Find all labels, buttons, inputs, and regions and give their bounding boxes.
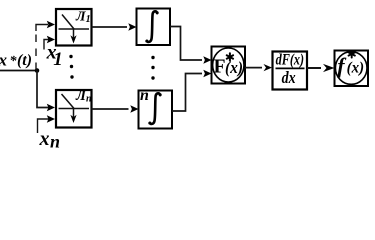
- svg-text:(x): (x): [225, 58, 243, 77]
- svg-text:1: 1: [53, 49, 63, 70]
- svg-text:F: F: [214, 57, 226, 78]
- wire: x*(t) input horizontal: [0, 70, 37, 72]
- wire: dF block to f block: [307, 67, 321, 69]
- wire: junction down to sampler Sn: [37, 71, 49, 108]
- dots: ellipsis between integrators: [151, 56, 154, 59]
- sampler Sn switch symbol: [59, 108, 90, 110]
- svg-text:(x): (x): [347, 60, 365, 77]
- wire: integrator Un output to F block: [172, 74, 202, 112]
- svg-text:dF(x): dF(x): [276, 52, 305, 69]
- integrator U1 integral sign: [147, 11, 157, 42]
- wire: xn hook into sampler Sn: [38, 119, 49, 133]
- svg-text:n: n: [140, 87, 149, 104]
- dF/dx fraction bar: [276, 67, 305, 69]
- f block box: [335, 51, 369, 87]
- svg-text:(t): (t): [17, 52, 32, 69]
- svg-text:x: x: [39, 128, 50, 150]
- wire: sampler S1 to integrator U1: [92, 26, 128, 28]
- wire: sampler Sn to integrator Un: [92, 108, 129, 110]
- svg-text:x: x: [0, 50, 8, 69]
- integrator Un box: [139, 91, 173, 129]
- F block box: [212, 47, 246, 84]
- wire: F block to dF block: [245, 67, 262, 69]
- integrator Un integral sign: [150, 93, 160, 124]
- sampler S1 box: [56, 9, 92, 46]
- wire: x1 hook into sampler S1: [44, 40, 49, 50]
- f block circle: [335, 52, 367, 85]
- integrator U1 box: [137, 9, 171, 46]
- svg-text:dx: dx: [282, 68, 296, 87]
- svg-text:n: n: [50, 132, 60, 152]
- wire: dashed vertical branch up to sampler 1: [35, 33, 37, 70]
- wire: integrator U1 output to F block: [170, 27, 202, 61]
- sampler S1 switch symbol: [59, 28, 90, 30]
- sampler Sn box: [56, 90, 92, 128]
- dots: ellipsis between samplers: [69, 55, 72, 58]
- dF/dx block box: [273, 52, 308, 90]
- junction: input node: [35, 68, 40, 73]
- F block circle: [213, 48, 244, 82]
